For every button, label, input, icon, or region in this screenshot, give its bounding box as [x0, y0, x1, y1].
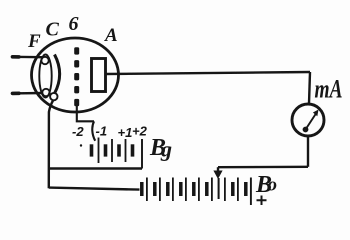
svg-text:A: A — [104, 25, 118, 46]
Bg plus-end long plate down to rail — [141, 139, 143, 169]
filament F oval — [39, 55, 51, 98]
Bo plus-end long plate — [250, 178, 252, 206]
vacuum tube V1 envelope — [32, 38, 119, 112]
meter pivot dot — [303, 127, 309, 133]
wire: right vertical down to meter — [309, 72, 310, 104]
wire: grid bias tap down to Bg — [92, 121, 95, 141]
Bg short thick plates — [90, 144, 94, 156]
svg-text:-2: -2 — [72, 124, 84, 139]
wire: grid lead — [77, 104, 94, 121]
battery Bo cells — [142, 178, 251, 206]
filament bottom ring terminal — [42, 89, 49, 96]
anode A plate rectangle — [92, 59, 106, 92]
wire: filament bottom lead — [12, 92, 42, 95]
svg-text:g: g — [160, 137, 172, 162]
svg-text:6: 6 — [69, 13, 79, 35]
milliammeter U1 body — [292, 104, 324, 136]
tap arrow onto Bo — [217, 167, 219, 171]
meter needle — [306, 114, 317, 130]
svg-text:o: o — [268, 175, 278, 196]
svg-text:+1: +1 — [118, 125, 133, 140]
tap bar into Bo battery — [218, 178, 220, 199]
grid G dashes — [74, 47, 79, 106]
wire: cathode lead down — [49, 101, 53, 189]
Bo long thin plates — [146, 178, 148, 202]
svg-text:mA: mA — [315, 75, 343, 104]
Bo short thick plates — [140, 182, 144, 196]
svg-text:+2: +2 — [132, 124, 148, 139]
svg-text:-1: -1 — [96, 124, 108, 139]
meter needle arrowhead — [313, 110, 319, 117]
filament top ring terminal — [41, 57, 48, 64]
wire: bottom horizontal to Bo tap — [218, 166, 308, 169]
wire: rail cathode to Bg plus terminal — [49, 167, 142, 169]
cathode ring terminal — [50, 93, 57, 100]
cathode C arc — [55, 55, 60, 94]
plus mark at Bo positive terminal — [257, 196, 267, 206]
svg-text:C: C — [46, 19, 60, 41]
wire: meter bottom down — [307, 137, 309, 167]
battery Bg cells — [92, 138, 143, 169]
wire: bottom rail to Bo minus terminal — [49, 188, 140, 190]
wire: anode lead to meter (top wire) — [106, 72, 311, 74]
Bg long thin plates — [98, 138, 100, 164]
wire: filament top lead — [12, 56, 42, 59]
stray dot — [80, 144, 82, 146]
svg-text:F: F — [27, 31, 41, 52]
